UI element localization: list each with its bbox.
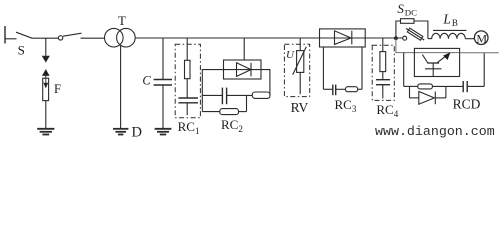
wire arrester to ground <box>45 101 47 129</box>
capacitor (RCD) plates <box>463 81 467 92</box>
diode (RC3) cathode bar <box>351 31 353 45</box>
motor M circle <box>474 31 488 45</box>
resistor (RC1) <box>185 60 191 78</box>
resistor R1 (RC2) <box>252 92 270 98</box>
GTO device symbol <box>422 52 450 76</box>
ground D <box>113 129 128 135</box>
svg-text:www.diangon.com: www.diangon.com <box>375 124 495 139</box>
ground (C branch) <box>155 129 172 135</box>
S_DC bypass right wire <box>414 21 428 39</box>
RCD row A right wire <box>432 85 463 87</box>
RV bottom wire <box>299 72 301 94</box>
arrester F up arrow <box>43 70 49 78</box>
wire blade to coil <box>428 38 432 40</box>
wire bus through RC3 <box>320 37 366 39</box>
capacitor (RC2) plates <box>222 88 226 105</box>
RCD row A left wire <box>404 85 418 87</box>
RCD riser to top line <box>483 53 485 87</box>
RCD diode left wire <box>410 97 419 99</box>
svg-text:F: F <box>54 82 61 96</box>
resistor (RC3) <box>346 87 358 92</box>
RC3 left leg <box>322 47 324 89</box>
RC3 box <box>320 29 366 47</box>
resistor (RCD) <box>418 84 433 89</box>
resistor R2 (RC2) <box>220 109 239 115</box>
capacitor C wire <box>162 38 164 79</box>
RC1 wire from bus <box>186 38 188 60</box>
S_DC contact circle <box>403 36 407 40</box>
wire bus left <box>32 37 59 39</box>
svg-text:U: U <box>286 49 295 61</box>
capacitor (RC3) plates <box>333 85 336 96</box>
svg-text:B: B <box>452 18 458 28</box>
diode (RC3) triangle <box>335 31 352 45</box>
RC4 wire from bus <box>382 38 384 52</box>
inductor L_B core bar <box>433 29 467 31</box>
svg-text:RC4: RC4 <box>376 102 398 119</box>
svg-text:D: D <box>132 125 142 141</box>
RCD left leg <box>403 53 405 87</box>
RCD top right line <box>460 52 499 54</box>
contact blade <box>63 33 82 36</box>
RC3 right leg <box>361 47 363 89</box>
svg-text:DC: DC <box>405 8 417 18</box>
contact circle (disconnector) <box>58 36 62 40</box>
svg-text:L: L <box>442 11 451 26</box>
RC3 resistor to leg wire <box>358 88 362 90</box>
arrester F inner gap arrow <box>44 78 48 87</box>
node junction to F branch <box>45 38 47 54</box>
svg-text:M: M <box>476 31 487 45</box>
RCD diode right wire <box>435 97 446 99</box>
RC2 junction vertical <box>246 95 248 111</box>
S_DC bypass resistor <box>401 19 415 24</box>
switch S blade <box>16 32 32 38</box>
svg-text:S: S <box>397 1 404 16</box>
RCD diode loop left drop <box>409 86 411 98</box>
diode (RC2) triangle <box>237 63 252 77</box>
transformer T primary circle <box>105 28 124 47</box>
S_DC bypass left wire <box>396 21 401 38</box>
varistor body <box>297 51 304 73</box>
varistor diagonal <box>293 47 307 75</box>
ground (F branch) <box>37 129 54 135</box>
capacitor C plates <box>154 80 172 86</box>
RC2 cap row left wire <box>202 94 222 96</box>
diode (RC2) line <box>224 69 262 71</box>
svg-text:RCD: RCD <box>453 97 481 112</box>
RC2 diode box <box>224 60 262 79</box>
arrester F body <box>43 78 49 100</box>
RC4 dash-dot enclosure <box>372 45 394 100</box>
svg-text:T: T <box>118 13 126 28</box>
wire coil to motor <box>465 38 474 40</box>
RV dash-dot enclosure <box>284 44 309 96</box>
svg-text:C: C <box>142 73 151 87</box>
svg-text:RC1: RC1 <box>178 119 200 136</box>
RC3 cap to resistor wire <box>336 88 346 90</box>
wire to transformer <box>81 37 105 39</box>
RC1 dash-dot enclosure <box>175 44 200 118</box>
RV stub from bus <box>299 38 301 51</box>
diode (RCD) triangle <box>419 92 435 105</box>
resistor (RC4) <box>380 52 386 72</box>
wire transformer bottom tap <box>120 45 122 128</box>
RC2 bottom row left wire <box>202 111 220 113</box>
svg-text:S: S <box>18 42 25 57</box>
RCD cap right wire <box>467 85 484 87</box>
RC4 wire resistor to cap <box>382 72 384 80</box>
RC2 stub from bus <box>243 38 245 60</box>
node junction dot <box>394 36 398 40</box>
RCD chopper box <box>414 48 459 76</box>
RC2 bottom row right wire <box>239 111 247 113</box>
S_DC breaker blade (slanted fuse) <box>405 26 426 41</box>
wire C to ground <box>162 85 164 129</box>
RC4 bottom wire <box>382 85 384 99</box>
capacitor (RC4) plates <box>376 80 390 85</box>
wire stub from terminal <box>5 38 17 40</box>
svg-text:RC3: RC3 <box>335 97 357 114</box>
wire main bus <box>135 37 319 39</box>
RC3 bottom left wire <box>323 88 332 90</box>
diode (RCD) cathode bar <box>434 92 436 105</box>
diode (RC2) cathode bar <box>250 63 252 77</box>
arrester F down arrow <box>43 54 49 62</box>
supply terminal bar <box>4 26 6 44</box>
RCD diode loop right drop <box>445 86 447 98</box>
RC2 right wire <box>261 70 270 96</box>
transformer T secondary circle <box>117 28 136 47</box>
wire bus to S_DC <box>365 37 403 39</box>
capacitor (RC1) plates <box>178 98 198 103</box>
RC1 bottom wire <box>186 103 188 115</box>
svg-text:RC2: RC2 <box>221 117 243 134</box>
wire resistor to capacitor (RC1) <box>186 79 188 98</box>
inductor L_B coil <box>432 33 466 38</box>
RC2 cap to resistor wire <box>227 94 253 96</box>
RC2 left wire <box>202 70 223 112</box>
svg-text:RV: RV <box>291 100 309 115</box>
RCD left feed wire <box>396 38 460 52</box>
